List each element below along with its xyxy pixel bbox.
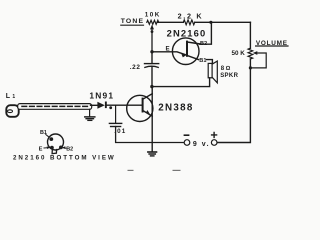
inductor L1 loop hook: [6, 105, 18, 117]
inductor L1 hole: [8, 110, 13, 113]
wire emitter of 2N2160: [152, 52, 185, 55]
label 1N91: [89, 90, 114, 100]
label L1: [6, 93, 16, 100]
ground main: [148, 151, 157, 153]
label 9 v.: [193, 141, 210, 148]
arrow B2 to pin: [63, 147, 66, 150]
potentiometer R1 10K body: [147, 20, 159, 24]
caption fragment Figure: [128, 170, 181, 171]
svg-text:E: E: [39, 146, 43, 152]
capacitor C2 .01 bottom plate: [111, 126, 121, 128]
label minus: [184, 134, 188, 136]
wire 10K to 2.2K: [158, 21, 184, 23]
wire B2 branch vertical: [200, 22, 212, 44]
node below 50K: [249, 66, 252, 69]
svg-text:SPKR: SPKR: [220, 73, 238, 79]
wire right rail down to volume pot: [249, 22, 251, 48]
node collector junction: [150, 85, 153, 88]
wire collector-emitter vertical to ground: [151, 87, 153, 152]
wire right rail to battery +: [217, 59, 250, 143]
node junction at B2 branch: [209, 21, 212, 24]
svg-text:10K: 10K: [145, 12, 161, 19]
emitter arrowhead 2N388: [146, 110, 151, 115]
diode D1 cathode bar: [105, 102, 107, 109]
pin E dot: [50, 146, 54, 150]
transistor bottom view circle: [48, 134, 64, 150]
node dot after diode: [109, 106, 112, 109]
node E junction: [150, 50, 153, 53]
transistor 2N388 base bar: [142, 99, 144, 112]
label TONE: [121, 18, 145, 25]
label E of 2N2160: [166, 45, 170, 52]
svg-text:B2: B2: [66, 147, 73, 153]
underline of TONE: [121, 24, 144, 26]
speaker cone: [212, 61, 217, 83]
label 2N388: [158, 103, 193, 114]
potentiometer R1 wiper arrow: [151, 29, 153, 52]
label B1 bottom view: [40, 130, 47, 136]
wire 2.2K to right corner: [195, 21, 251, 23]
bottom view tab: [52, 150, 57, 154]
wire rod to diode: [91, 104, 98, 106]
svg-text:L: L: [6, 93, 11, 100]
label 2N2160: [167, 27, 207, 38]
label SPKR: [220, 73, 238, 79]
label 10K: [145, 12, 161, 19]
label E bottom view: [39, 146, 43, 152]
wire collector node to speaker bottom: [152, 78, 210, 87]
label 50 K: [232, 50, 246, 57]
inductor L1 ferrite rod: [18, 104, 92, 110]
potentiometer R3 wiper arrow: [250, 53, 266, 68]
label B1 of 2N2160: [199, 58, 206, 64]
label 8 ohm: [221, 66, 231, 72]
pin B1 dot: [49, 137, 53, 141]
label 2N2160 BOTTOM VIEW: [13, 155, 116, 162]
capacitor C1 .22 top plate: [145, 63, 159, 65]
transistor Q1 2N388 circle: [127, 95, 153, 121]
transistor 2N2160 B2 lead: [187, 42, 200, 44]
svg-text:9 v.: 9 v.: [193, 141, 210, 148]
svg-text:8 Ω: 8 Ω: [221, 66, 231, 72]
transistor 2N388 collector lead: [143, 94, 153, 100]
arrow B1 to pin: [46, 135, 49, 138]
battery terminal minus: [184, 140, 190, 146]
capacitor C1 .22 bottom plate: [145, 66, 158, 67]
svg-text:1N91: 1N91: [89, 90, 114, 100]
wire rod ground stub: [89, 109, 91, 116]
svg-text:2N2160: 2N2160: [167, 27, 207, 38]
ground under L1: [85, 116, 95, 118]
resistor R2 2.2K: [183, 20, 194, 25]
capacitor C2 .01 top plate: [109, 122, 121, 124]
wire C1 down to collector node: [151, 67, 153, 87]
svg-text:.22: .22: [130, 64, 141, 71]
wire C2 to bottom rail: [116, 127, 184, 143]
wire B1 to speaker: [207, 60, 213, 64]
wire diode to base: [107, 104, 143, 106]
label B2 bottom view: [66, 147, 73, 153]
emitter arrowhead 2N2160: [181, 54, 186, 57]
label 2.2 K: [178, 11, 204, 20]
label .01: [114, 128, 126, 135]
svg-text:TONE: TONE: [121, 18, 145, 25]
label plus: [212, 132, 217, 137]
diode D1 1N91 triangle: [97, 102, 104, 109]
op-amp: transistor U1 2N2160 circle: [172, 38, 199, 65]
wire .01 branch down: [115, 105, 117, 123]
label B2 of 2N2160: [200, 41, 207, 47]
pin B2 dot: [59, 146, 63, 150]
transistor 2N2160 base bar: [186, 42, 188, 56]
label VOLUME: [256, 40, 288, 47]
transistor 2N2160 B1 lead: [187, 55, 199, 59]
svg-text:1: 1: [12, 94, 15, 100]
svg-text:2.2 K: 2.2 K: [178, 11, 204, 20]
wire E junction down to C1: [151, 52, 153, 64]
dot on wiper lead: [151, 30, 154, 33]
svg-text:2N388: 2N388: [158, 103, 193, 114]
arrow E to pin: [44, 147, 49, 149]
svg-text:B2: B2: [200, 41, 207, 47]
svg-text:B1: B1: [199, 58, 206, 64]
underline of VOLUME: [256, 45, 288, 47]
battery terminal plus: [211, 140, 217, 146]
inductor L1 core dashes: [22, 105, 89, 107]
svg-text:50 K: 50 K: [232, 50, 246, 57]
svg-text:2N2160 BOTTOM VIEW: 2N2160 BOTTOM VIEW: [13, 155, 116, 162]
label .22: [130, 64, 141, 71]
transistor 2N388 emitter lead: [143, 110, 153, 116]
potentiometer R3 50K body: [248, 48, 253, 59]
speaker coil box: [208, 63, 212, 77]
